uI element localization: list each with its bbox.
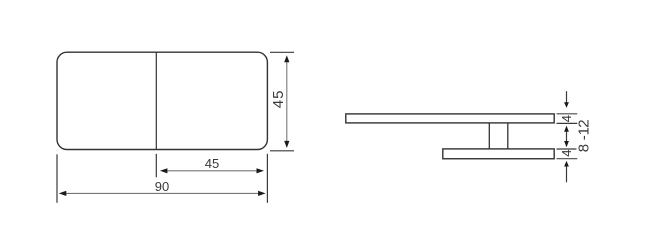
tick plate bottom <box>557 122 578 124</box>
svg-text:4: 4 <box>559 149 574 156</box>
arrow down gap <box>564 141 569 147</box>
svg-text:8: 8 <box>575 144 592 152</box>
svg-text:90: 90 <box>155 179 169 194</box>
arrow left <box>160 168 168 173</box>
dimension line 45 vertical <box>286 62 288 142</box>
gap dimension line <box>566 131 568 141</box>
tick bottom right <box>270 150 294 152</box>
label 8-12 <box>575 119 592 152</box>
extension line right <box>266 154 268 203</box>
tick lower plate top <box>557 148 577 150</box>
plate front view outline <box>57 52 267 149</box>
dimension line 90 <box>66 192 258 194</box>
arrow left <box>59 191 67 196</box>
stem right line <box>507 123 509 149</box>
leader line bottom <box>566 166 568 182</box>
divider line <box>155 52 157 149</box>
extension line middle <box>155 154 157 178</box>
tick top right <box>270 51 294 53</box>
arrow down <box>284 141 289 148</box>
svg-text:2: 2 <box>575 119 592 127</box>
arrow up to plate bottom <box>564 161 569 167</box>
extension line left <box>56 154 58 203</box>
tick plate top <box>557 113 578 115</box>
svg-text:45: 45 <box>270 90 287 109</box>
top plate side view <box>346 114 554 123</box>
svg-text:45: 45 <box>205 156 219 171</box>
arrow up gap <box>564 126 569 132</box>
arrow down to plate top <box>564 102 569 108</box>
tick lower plate bottom <box>557 158 578 160</box>
arrow right <box>257 168 265 173</box>
bottom plate side view <box>443 149 554 159</box>
stem left line <box>488 123 490 149</box>
leader line top <box>566 91 568 103</box>
svg-text:4: 4 <box>559 115 574 122</box>
arrow right <box>258 191 266 196</box>
arrow up <box>284 55 289 62</box>
dimension line 45 bottom <box>167 170 257 172</box>
